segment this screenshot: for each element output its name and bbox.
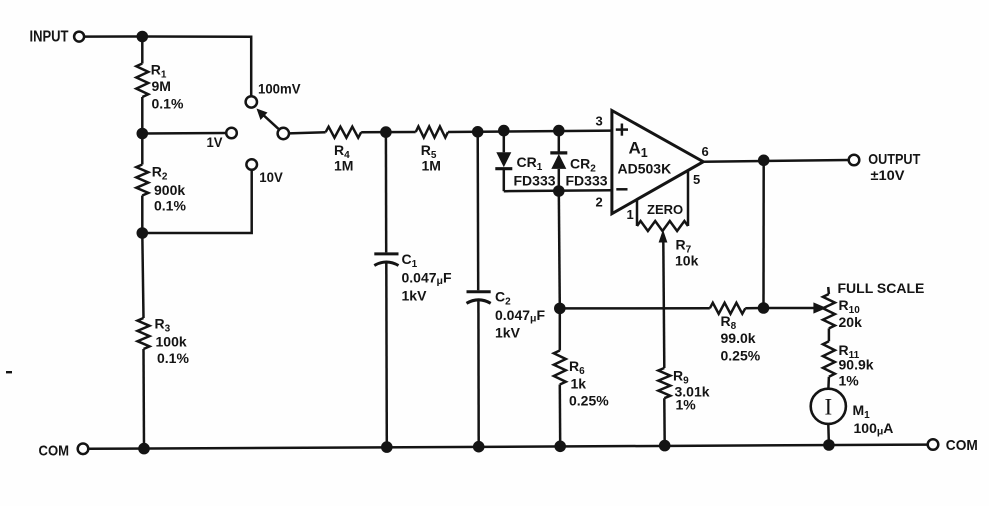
svg-text:1: 1 — [627, 207, 634, 222]
node rail C2 — [473, 441, 485, 453]
wire pole to R4 — [289, 132, 326, 133]
wire 10V contact down to node — [142, 170, 251, 233]
svg-text:100mV: 100mV — [258, 80, 301, 96]
svg-text:FD333: FD333 — [514, 173, 556, 189]
svg-text:0.25%: 0.25% — [721, 348, 761, 364]
svg-text:20k: 20k — [839, 314, 863, 330]
svg-text:10V: 10V — [259, 169, 283, 185]
node 10V tap — [137, 227, 149, 239]
svg-text:0.1%: 0.1% — [154, 198, 186, 214]
svg-text:6: 6 — [702, 144, 709, 159]
svg-text:CR1: CR1 — [517, 154, 543, 173]
svg-text:AD503K: AD503K — [618, 161, 672, 177]
node R8 right junction — [758, 302, 770, 314]
svg-text:90.9k: 90.9k — [839, 357, 874, 373]
svg-text:R3: R3 — [155, 316, 171, 335]
node input junction — [137, 31, 149, 43]
terminal OUTPUT — [849, 155, 860, 166]
svg-text:C1: C1 — [402, 251, 418, 270]
terminal COM left — [78, 444, 89, 455]
wire top row to switch corner — [142, 37, 251, 96]
resistor R8 — [710, 303, 746, 314]
resistor R4 — [326, 127, 362, 138]
svg-text:FULL SCALE: FULL SCALE — [838, 280, 925, 296]
diode CR2 — [558, 131, 561, 152]
op-amp A1 — [612, 111, 703, 214]
node CR1 top — [498, 125, 510, 137]
node rail R3 — [138, 443, 150, 455]
svg-text:0.25%: 0.25% — [569, 393, 609, 409]
resistor R11 — [823, 341, 835, 377]
svg-text:1V: 1V — [207, 134, 224, 150]
svg-text:I: I — [824, 394, 832, 419]
terminal 10V contact — [246, 159, 257, 170]
svg-text:3: 3 — [596, 114, 603, 129]
node minus net — [553, 185, 565, 197]
terminal 1V contact — [226, 128, 237, 139]
wire node to R5 — [386, 131, 416, 134]
svg-text:COM: COM — [946, 437, 978, 454]
wire diodes to op-amp - input — [504, 190, 612, 191]
svg-text:900k: 900k — [154, 182, 185, 198]
stray scan speck — [6, 371, 12, 373]
wire R5 to op-amp + input — [448, 131, 612, 132]
svg-text:0.1%: 0.1% — [152, 96, 184, 112]
resistor R1 — [141, 37, 144, 64]
svg-text:1kV: 1kV — [495, 325, 521, 341]
wire INPUT terminal to node — [84, 35, 142, 38]
switch 100mV contact — [246, 96, 257, 107]
svg-text:1%: 1% — [839, 373, 860, 389]
node C2 tap — [472, 126, 484, 138]
svg-text:R6: R6 — [569, 358, 585, 377]
meter M1 — [811, 389, 846, 424]
node output junction — [758, 155, 770, 167]
svg-text:99.0k: 99.0k — [721, 330, 756, 346]
svg-text:1%: 1% — [676, 397, 697, 413]
svg-text:0.1%: 0.1% — [157, 350, 189, 366]
svg-text:FD333: FD333 — [566, 173, 608, 189]
svg-text:1M: 1M — [334, 158, 353, 174]
svg-text:R2: R2 — [152, 164, 168, 183]
svg-text:INPUT: INPUT — [30, 29, 69, 46]
svg-text:10k: 10k — [675, 253, 699, 269]
node rail R9 — [659, 440, 671, 452]
wire minus net down to R6 node — [559, 191, 560, 308]
svg-text:9M: 9M — [152, 78, 171, 94]
potentiometer R10 FULL SCALE — [827, 287, 830, 294]
svg-text:100μA: 100μA — [854, 420, 894, 438]
node rail R6 — [554, 441, 566, 453]
resistor R9 — [658, 368, 670, 398]
wire R6 node to R8 — [560, 307, 710, 310]
svg-text:COM: COM — [39, 442, 70, 459]
wire R7 wiper down to R9 — [663, 240, 664, 368]
svg-text:1k: 1k — [571, 376, 587, 392]
node rail M1 — [823, 439, 835, 451]
svg-text:±10V: ±10V — [871, 167, 906, 183]
wire wiper arm to R10 — [764, 307, 815, 310]
svg-text:C2: C2 — [495, 289, 511, 308]
wire node to 1V contact — [142, 132, 226, 135]
node C1 tap — [380, 126, 392, 138]
node R6 top — [554, 303, 566, 315]
svg-text:OUTPUT: OUTPUT — [868, 151, 920, 168]
resistor R3 — [142, 233, 143, 318]
svg-text:0.047μF: 0.047μF — [402, 270, 452, 288]
node CR2 top — [553, 125, 565, 137]
wire R10 to R11 — [828, 328, 831, 341]
svg-text:5: 5 — [693, 172, 700, 187]
resistor R6 — [559, 308, 562, 350]
terminal INPUT — [74, 32, 84, 42]
capacitor C1 — [385, 132, 388, 252]
capacitor C2 — [476, 132, 479, 290]
resistor R2 — [141, 134, 144, 165]
wire R4 to node — [361, 131, 386, 134]
switch pole and arm — [278, 128, 289, 139]
resistor R5 — [416, 127, 448, 138]
wire output junction down to R8 node — [762, 160, 765, 308]
svg-text:100k: 100k — [156, 334, 187, 350]
svg-text:1M: 1M — [422, 158, 441, 174]
svg-text:0.047μF: 0.047μF — [495, 307, 545, 325]
terminal COM right — [928, 439, 939, 450]
diode CR1 — [503, 131, 506, 153]
node rail C1 — [381, 441, 393, 453]
svg-text:1kV: 1kV — [402, 288, 428, 304]
svg-text:2: 2 — [596, 195, 603, 210]
svg-text:M1: M1 — [853, 402, 871, 421]
node 1V tap — [137, 128, 149, 140]
wire op-amp output to OUTPUT terminal — [703, 160, 849, 162]
wire bottom rail — [88, 445, 927, 449]
potentiometer R7 ZERO — [636, 200, 639, 226]
svg-text:ZERO: ZERO — [647, 202, 683, 217]
